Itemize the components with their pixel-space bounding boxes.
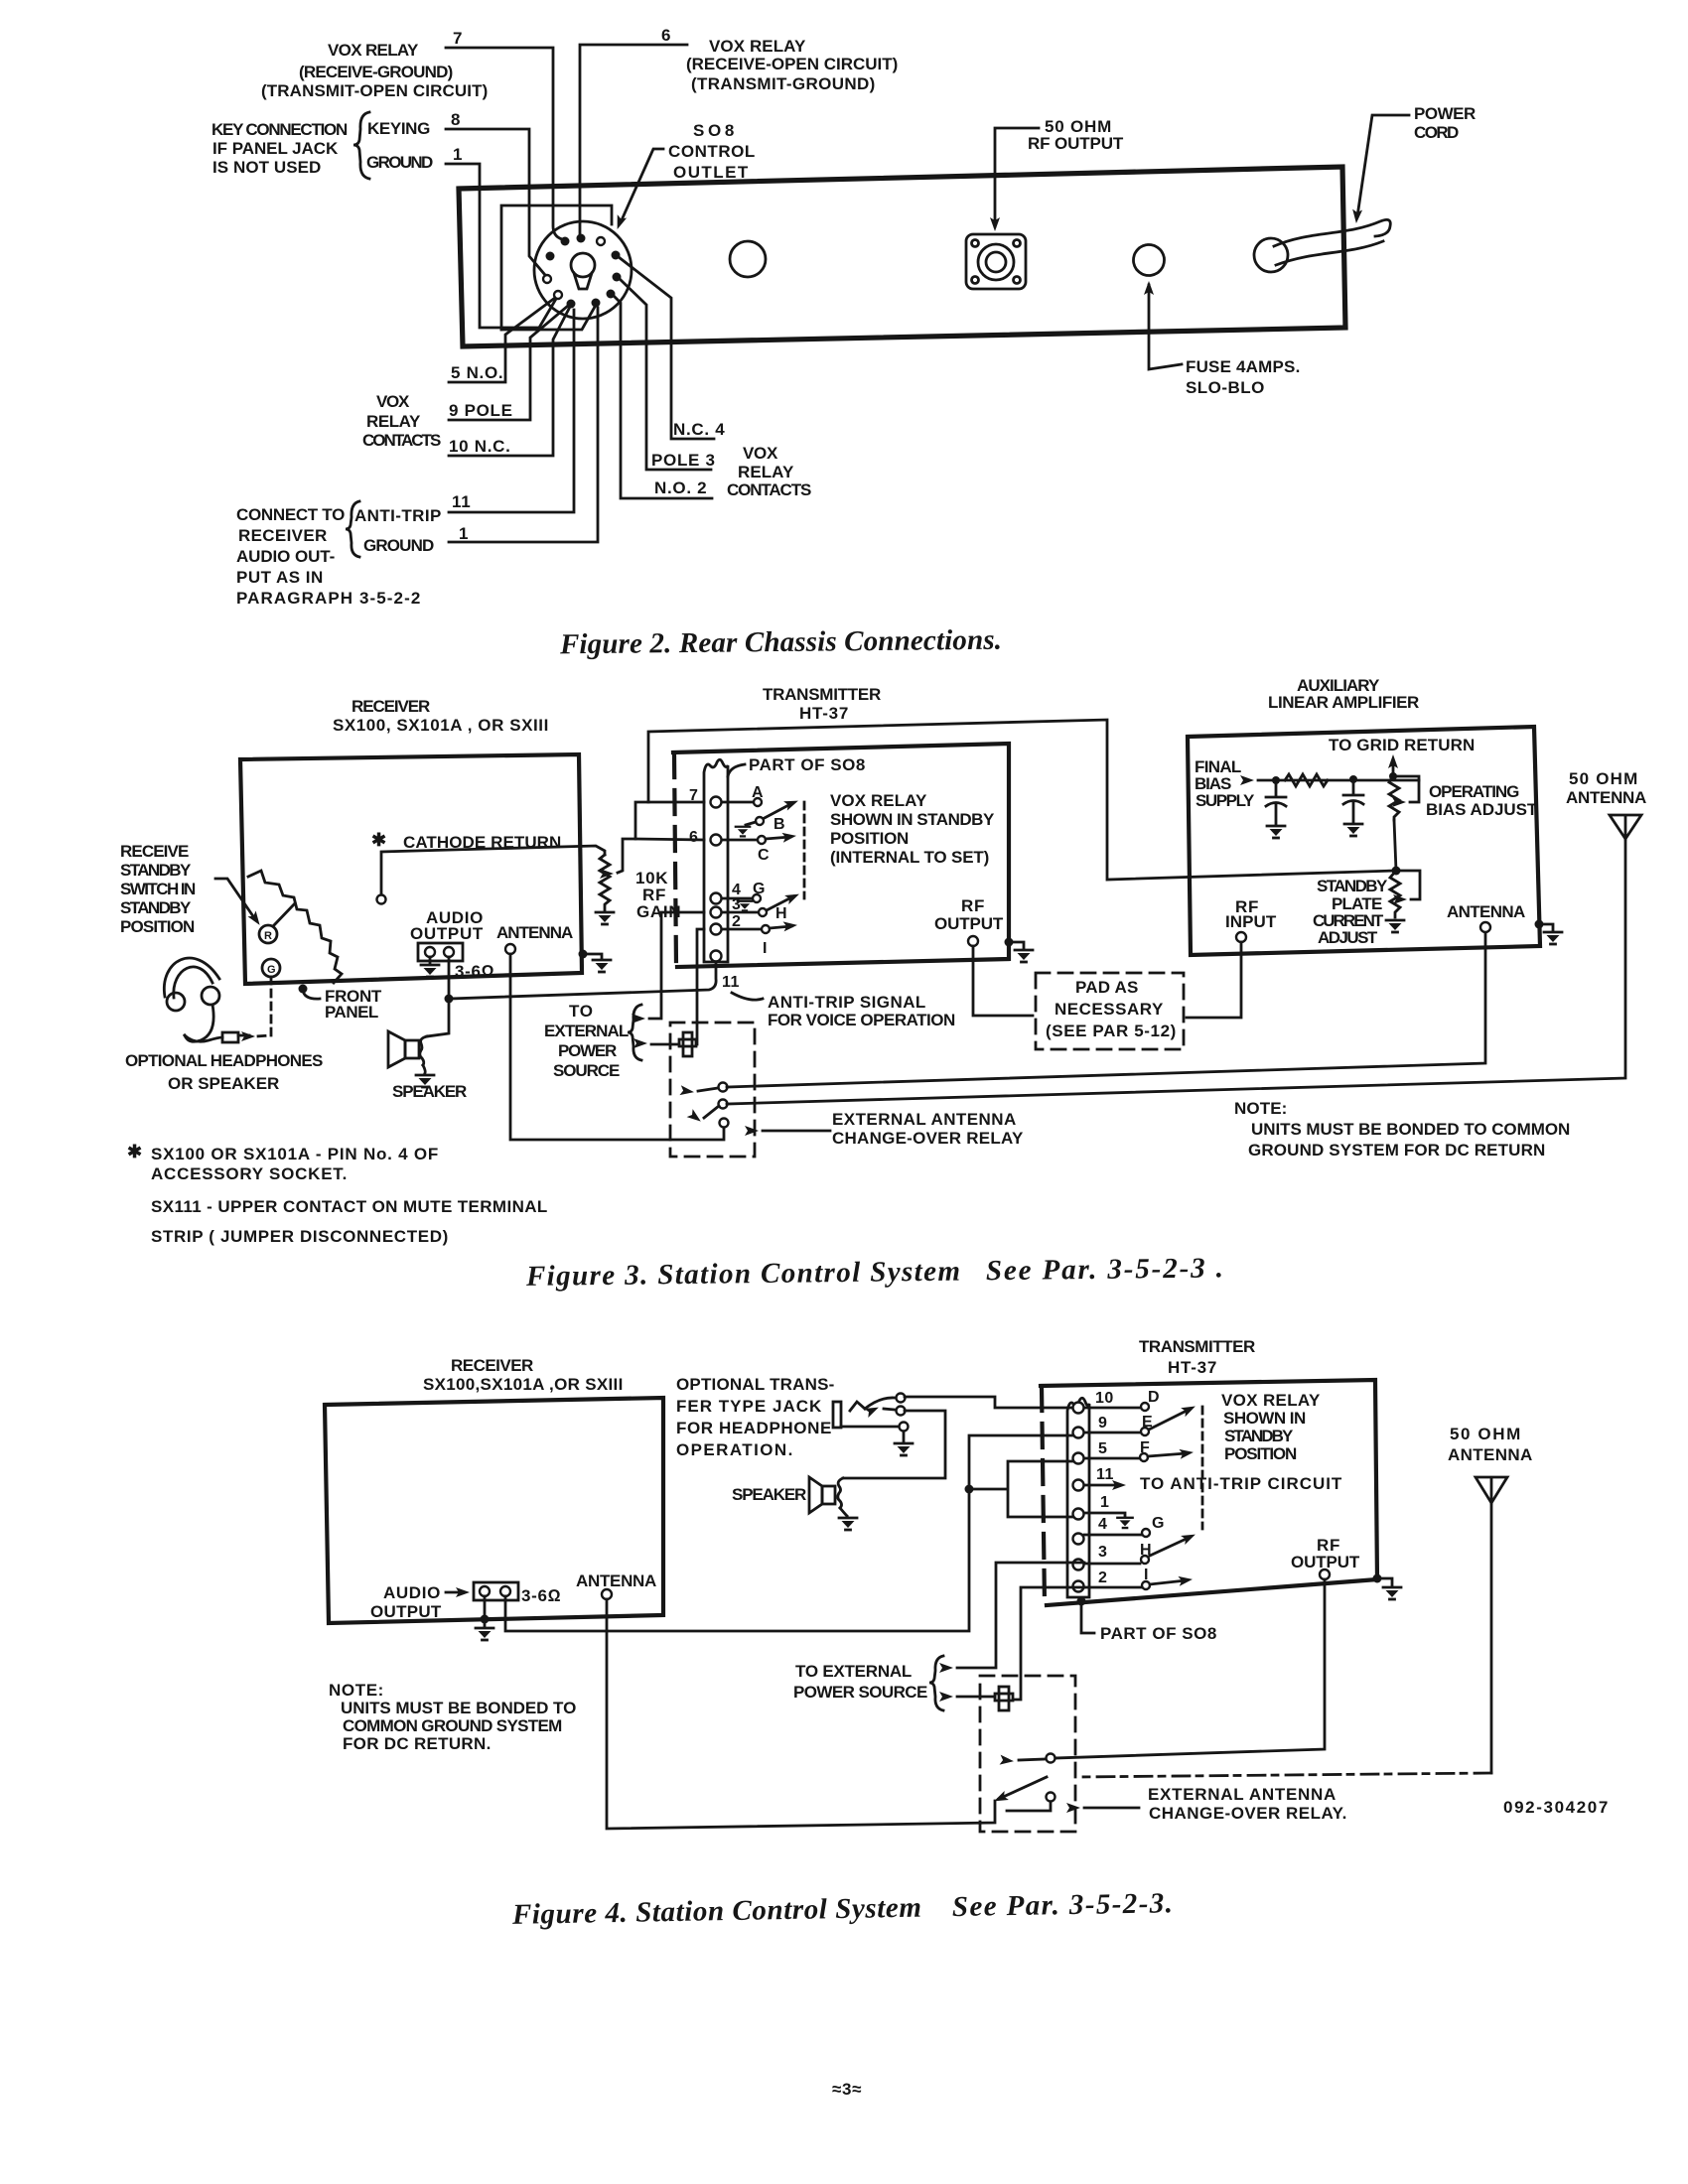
svg-text:Figure 2. Rear Chassis Connect: Figure 2. Rear Chassis Connections.: [559, 624, 1003, 661]
leader to RF connector: [995, 128, 1039, 226]
contact D: [1084, 1407, 1140, 1410]
svg-text:2: 2: [1098, 1570, 1107, 1586]
svg-text:COMMON GROUND SYSTEM: COMMON GROUND SYSTEM: [343, 1716, 563, 1735]
wire anti-trip pin 11: [449, 310, 574, 512]
svg-text:RECEIVE: RECEIVE: [120, 842, 190, 861]
svg-text:8: 8: [451, 110, 461, 129]
svg-text:EXTERNAL: EXTERNAL: [544, 1022, 630, 1040]
SO8 strip fig4: [1067, 1398, 1089, 1597]
pot operating bias adjust: [1389, 776, 1399, 820]
svg-text:CONNECT TO: CONNECT TO: [236, 505, 346, 524]
contact C: [722, 839, 757, 842]
antenna wire fig4: [607, 1599, 995, 1829]
label KEY CONNECTION block: [211, 120, 349, 177]
label AUXILIARY LINEAR AMPLIFIER: [1268, 676, 1420, 712]
wire POLE 3: [620, 279, 711, 470]
leader relay fig3: [763, 1130, 830, 1133]
RF output connector SO-239: [966, 234, 1026, 289]
pin 1 ground: [1084, 1513, 1125, 1516]
svg-text:GROUND: GROUND: [363, 536, 435, 555]
label VOX RELAY SHOWN fig4: [1221, 1391, 1321, 1463]
label VOX RELAY SHOWN IN STANDBY: [830, 791, 995, 867]
svg-text:AUDIO OUT-: AUDIO OUT-: [236, 547, 336, 566]
receiver box: [240, 754, 582, 984]
svg-text:SHOWN IN: SHOWN IN: [1223, 1409, 1307, 1428]
svg-text:Figure 3. Station Control Syst: Figure 3. Station Control System: [525, 1256, 961, 1293]
svg-text:ANTENNA: ANTENNA: [576, 1571, 657, 1590]
svg-text:9: 9: [1098, 1415, 1107, 1432]
bias bus wire: [1258, 779, 1419, 782]
transmitter box fig3: [673, 744, 1009, 967]
svg-text:I: I: [763, 940, 768, 957]
wire ground pin1 bottom: [449, 308, 598, 542]
relay arm top: [698, 1088, 718, 1091]
svg-text:1: 1: [459, 524, 469, 543]
svg-text:ANTI-TRIP: ANTI-TRIP: [354, 506, 442, 525]
label ANTI-TRIP SIGNAL: [768, 993, 956, 1029]
svg-text:F: F: [1140, 1439, 1150, 1456]
svg-text:EXTERNAL ANTENNA: EXTERNAL ANTENNA: [1148, 1785, 1336, 1804]
svg-text:ACCESSORY SOCKET.: ACCESSORY SOCKET.: [151, 1164, 348, 1183]
svg-text:G: G: [267, 964, 276, 976]
label VOX RELAY (receive-ground): [261, 41, 489, 100]
label NOTE fig4: [329, 1681, 577, 1753]
svg-text:(RECEIVE-GROUND): (RECEIVE-GROUND): [299, 63, 454, 81]
leader front panel: [299, 985, 308, 994]
label FRONT PANEL: [325, 987, 382, 1022]
antenna symbol fig4: [1476, 1477, 1507, 1503]
relay contact middle fig3: [719, 1100, 728, 1109]
wire pin6 to socket: [580, 45, 687, 234]
transmitter left edge dashed fig4: [1042, 1387, 1045, 1604]
svg-text:TO: TO: [569, 1002, 594, 1021]
svg-text:OUTPUT: OUTPUT: [410, 924, 484, 943]
svg-text:POSITION: POSITION: [830, 829, 910, 848]
label RECEIVER SX100: [333, 697, 549, 735]
coax plug fig4: [995, 1687, 1013, 1710]
svg-text:RECEIVER: RECEIVER: [238, 526, 328, 545]
leader to switch: [215, 879, 255, 919]
audio output terminal strip: [418, 943, 463, 961]
wire pin7 up and across top: [648, 720, 1396, 880]
svg-text:TRANSMITTER: TRANSMITTER: [763, 685, 882, 704]
contact G fig4: [1084, 1534, 1141, 1537]
standby switch terminal G: [262, 959, 280, 977]
fuse holder: [1134, 245, 1165, 276]
speaker ground fig4: [840, 1508, 847, 1516]
audio wire to pin9 and jumpers: [505, 1435, 1072, 1631]
strip pins fig4: [1073, 1403, 1084, 1592]
wire jack ring to speaker: [843, 1411, 945, 1478]
svg-text:50 OHM: 50 OHM: [1450, 1425, 1521, 1443]
pin number labels fig3: [689, 787, 741, 991]
label OPTIONAL TRANSFER JACK: [676, 1375, 835, 1459]
svg-text:OUTPUT: OUTPUT: [934, 914, 1004, 933]
grid return arrow: [1392, 760, 1395, 775]
svg-text:See Par. 3-5-2-3.: See Par. 3-5-2-3.: [952, 1887, 1175, 1923]
svg-text:SHOWN IN STANDBY: SHOWN IN STANDBY: [830, 810, 995, 829]
svg-text:LINEAR AMPLIFIER: LINEAR AMPLIFIER: [1268, 693, 1420, 712]
svg-text:9 POLE: 9 POLE: [449, 401, 513, 420]
label RF INPUT: [1225, 897, 1277, 931]
svg-text:B: B: [774, 816, 785, 833]
svg-text:SPEAKER: SPEAKER: [732, 1485, 807, 1504]
label EXTERNAL ANTENNA CHANGE-OVER RELAY fig4: [1148, 1785, 1347, 1823]
jack check contact: [850, 1402, 865, 1411]
svg-text:NOTE:: NOTE:: [329, 1681, 384, 1700]
svg-text:R: R: [264, 930, 272, 942]
svg-text:11: 11: [722, 974, 740, 991]
svg-text:SX100,SX101A ,OR SXIII: SX100,SX101A ,OR SXIII: [423, 1375, 624, 1394]
panel hole: [730, 241, 766, 277]
wire jack tip to pin 10: [905, 1397, 1072, 1408]
aux amplifier box: [1188, 727, 1540, 955]
svg-text:OUTLET: OUTLET: [673, 163, 749, 182]
svg-text:(TRANSMIT-OPEN CIRCUIT): (TRANSMIT-OPEN CIRCUIT): [261, 81, 489, 100]
arm H to G fig4: [1150, 1538, 1189, 1556]
svg-text:OUTPUT: OUTPUT: [370, 1602, 442, 1621]
svg-text:1: 1: [453, 145, 463, 164]
contact I fig4: [1084, 1586, 1141, 1589]
label FINAL BIAS SUPPLY: [1195, 757, 1255, 810]
svg-text:10 N.C.: 10 N.C.: [449, 437, 511, 456]
svg-text:UNITS MUST BE BONDED TO C: UNITS MUST BE BONDED TO COMMON: [1251, 1120, 1571, 1139]
label OPTIONAL HEADPHONES OR SPEAKER: [125, 1051, 324, 1093]
coax plug fig3: [679, 1032, 696, 1056]
wire pin7 to socket: [446, 48, 562, 239]
svg-text:RECEIVER: RECEIVER: [352, 697, 431, 716]
svg-text:G: G: [753, 881, 766, 897]
svg-text:POWER: POWER: [1414, 104, 1477, 123]
svg-text:RELAY: RELAY: [738, 463, 794, 481]
svg-text:OPTIONAL TRANS-: OPTIONAL TRANS-: [676, 1375, 835, 1394]
wire pin2 to plug fig4: [1014, 1587, 1084, 1700]
svg-text:11: 11: [1096, 1466, 1114, 1483]
svg-text:KEYING: KEYING: [367, 119, 431, 138]
power cord grommet: [1254, 238, 1288, 272]
svg-text:GROUND: GROUND: [366, 153, 434, 172]
svg-text:5: 5: [1098, 1440, 1107, 1457]
svg-text:FUSE 4AMPS.: FUSE 4AMPS.: [1186, 357, 1301, 376]
scratchy antenna feed line fig4: [1077, 1773, 1491, 1777]
wire pin2 to plug: [697, 929, 704, 1044]
brace ext power fig4: [929, 1656, 943, 1710]
svg-text:3-6Ω: 3-6Ω: [455, 962, 494, 981]
svg-text:ANTENNA: ANTENNA: [496, 923, 574, 942]
transmitter chassis ground fig4: [1373, 1574, 1382, 1583]
receiver chassis ground: [579, 950, 588, 959]
transfer jack plug bar: [833, 1402, 841, 1428]
transmitter left edge dashed: [674, 753, 676, 966]
svg-text:PART OF SO8: PART OF SO8: [1100, 1624, 1217, 1643]
chassis rear panel outline: [459, 167, 1345, 346]
label TRANSMITTER HT-37 fig4: [1139, 1337, 1256, 1377]
jack ground: [903, 1432, 906, 1441]
junction anti-trip tap: [445, 995, 454, 1004]
svg-text:VOX RELAY: VOX RELAY: [709, 37, 806, 56]
svg-text:FOR VOICE OPERATION: FOR VOICE OPERATION: [768, 1011, 956, 1029]
socket pins: [543, 234, 622, 309]
svg-text:OPERATION.: OPERATION.: [676, 1440, 793, 1459]
svg-text:POWER: POWER: [558, 1041, 618, 1060]
svg-text:CONTROL: CONTROL: [668, 142, 756, 161]
wiper standby: [1396, 871, 1420, 899]
svg-text:4: 4: [1098, 1516, 1107, 1533]
pin labels fig4: [1095, 1390, 1114, 1586]
svg-text:RECEIVER: RECEIVER: [451, 1356, 534, 1375]
wire to aux antenna: [727, 932, 1485, 1087]
wire N.C.4: [619, 257, 714, 439]
svg-text:11: 11: [452, 492, 471, 511]
svg-text:OPTIONAL HEADPHONES: OPTIONAL HEADPHONES: [125, 1051, 324, 1070]
junction dots bias: [1272, 776, 1280, 784]
svg-text:ANTENNA: ANTENNA: [1448, 1445, 1533, 1464]
svg-text:VOX RELAY: VOX RELAY: [1221, 1391, 1321, 1410]
wire keying pin8: [446, 129, 545, 275]
svg-text:SOURCE: SOURCE: [553, 1061, 621, 1080]
contact I: [722, 928, 761, 931]
label RF OUTPUT fig4: [1291, 1536, 1360, 1571]
torn edge wavy line: [248, 871, 342, 983]
svg-text:HT-37: HT-37: [1168, 1358, 1217, 1377]
aux chassis ground: [1535, 920, 1544, 929]
label VOX RELAY CONTACTS (right): [727, 444, 812, 499]
svg-text:EXTERNAL ANTENNA: EXTERNAL ANTENNA: [832, 1110, 1017, 1129]
wire pin3 to ext power: [649, 912, 704, 1019]
power cord: [1274, 219, 1390, 246]
headphone cord and plug: [185, 1035, 222, 1041]
svg-text:SO8: SO8: [693, 121, 735, 140]
label 50 OHM RF OUTPUT: [1028, 117, 1124, 153]
wire pin3 to ext power fig4: [957, 1563, 1084, 1668]
svg-text:10: 10: [1095, 1390, 1114, 1407]
svg-text:A: A: [752, 784, 764, 801]
fig3 transmitter RF OUTPUT: [934, 896, 1004, 933]
brace anti-trip/ground: [346, 501, 359, 557]
arm E to D: [1149, 1410, 1189, 1430]
svg-text:6: 6: [661, 26, 671, 45]
svg-text:BIAS ADJUST: BIAS ADJUST: [1426, 800, 1538, 819]
svg-text:VOX: VOX: [376, 392, 410, 411]
svg-text:POSITION: POSITION: [120, 917, 196, 936]
label 50 OHM ANTENNA fig3: [1566, 769, 1647, 807]
relay contact B fig4: [1047, 1793, 1055, 1802]
svg-text:ADJUST: ADJUST: [1318, 928, 1378, 947]
svg-text:HT-37: HT-37: [799, 704, 849, 723]
potentiometer 10K RF GAIN: [600, 855, 610, 910]
svg-text:PUT AS IN: PUT AS IN: [236, 568, 324, 587]
svg-text:3: 3: [1098, 1544, 1107, 1561]
svg-text:FOR DC RETURN.: FOR DC RETURN.: [343, 1734, 492, 1753]
label PAD AS NECESSARY: [1046, 978, 1177, 1040]
svg-text:OPERATING: OPERATING: [1429, 782, 1520, 801]
ground at audio strip: [429, 957, 432, 964]
label VOX RELAY (receive-open circuit): [686, 37, 899, 93]
svg-text:N.O. 2: N.O. 2: [654, 478, 707, 497]
svg-text:INPUT: INPUT: [1225, 912, 1277, 931]
contact H: [722, 911, 758, 914]
svg-text:UNITS MUST BE BONDED TO: UNITS MUST BE BONDED TO: [341, 1699, 577, 1717]
svg-text:H: H: [1140, 1542, 1152, 1559]
relay contact A fig4: [1047, 1754, 1055, 1763]
brace ext power fig3: [628, 1005, 641, 1060]
svg-text:2: 2: [732, 913, 741, 930]
label STANDBY PLATE CURRENT ADJUST: [1313, 877, 1388, 947]
label EXTERNAL ANTENNA CHANGE-OVER RELAY fig3: [832, 1110, 1024, 1148]
actuator dashed fig4: [1201, 1407, 1204, 1529]
svg-text:(INTERNAL TO SET): (INTERNAL TO SET): [830, 848, 990, 867]
svg-text:N.C. 4: N.C. 4: [673, 420, 725, 439]
svg-text:SX100 OR SX101A - PIN No.: SX100 OR SX101A - PIN No. 4 OF: [151, 1145, 439, 1163]
SO8 strip fig3: [704, 759, 728, 962]
svg-text:✱: ✱: [127, 1142, 143, 1161]
relay contact bottom fig3: [720, 1119, 729, 1128]
antenna terminal fig4: [602, 1589, 612, 1599]
speaker fig4: [809, 1477, 843, 1513]
relay contact top fig3: [719, 1083, 728, 1092]
arrow to plug line: [651, 1043, 679, 1046]
svg-text:(SEE PAR 5-12): (SEE PAR 5-12): [1046, 1022, 1177, 1040]
svg-text:AUDIO: AUDIO: [383, 1583, 441, 1602]
capacitor C2: [1343, 779, 1363, 836]
svg-text:STANDBY: STANDBY: [120, 898, 192, 917]
capacitor C1: [1266, 780, 1286, 838]
socket SO8 body circle: [534, 221, 632, 319]
cathode return wire: [381, 846, 605, 894]
label AUDIO OUTPUT fig4: [370, 1583, 442, 1621]
label TRANSMITTER HT-37: [763, 685, 882, 723]
svg-text:PARAGRAPH 3-5-2-2: PARAGRAPH 3-5-2-2: [236, 589, 421, 608]
svg-text:OR SPEAKER: OR SPEAKER: [168, 1074, 280, 1093]
label CONNECT TO receiver block: [236, 505, 421, 608]
contact F: [1084, 1457, 1139, 1460]
svg-text:SLO-BLO: SLO-BLO: [1186, 378, 1265, 397]
wire pin6 to pot wiper: [618, 839, 704, 873]
pot standby plate current: [1390, 871, 1400, 917]
wire to 50 ohm antenna: [727, 839, 1625, 1104]
asterisk footnote fig3: [127, 1142, 548, 1246]
relay arm middle: [704, 1106, 719, 1118]
svg-text:7: 7: [689, 787, 698, 804]
svg-text:RELAY: RELAY: [366, 412, 421, 431]
svg-text:≈3≈: ≈3≈: [832, 2080, 862, 2099]
label FUSE 4AMPS SLO-BLO: [1186, 357, 1301, 397]
svg-text:7: 7: [453, 29, 463, 48]
label TO EXTERNAL POWER SOURCE fig4: [793, 1662, 928, 1702]
cathode return terminal: [377, 895, 386, 904]
svg-text:TO GRID RETURN: TO GRID RETURN: [1329, 736, 1476, 754]
ext antenna relay dashed box fig3: [670, 1023, 755, 1157]
pin 11 anti-trip leader: [732, 993, 763, 1000]
relay actuator dashed (upper): [803, 802, 806, 898]
strip pins fig3: [711, 797, 722, 962]
inner mounting plate around socket: [501, 205, 612, 330]
svg-text:3-6Ω: 3-6Ω: [521, 1586, 561, 1605]
svg-text:STANDBY: STANDBY: [120, 861, 192, 880]
wire rf output to pad: [973, 946, 1033, 1016]
svg-text:FER TYPE JACK: FER TYPE JACK: [676, 1397, 822, 1416]
svg-text:VOX RELAY: VOX RELAY: [830, 791, 927, 810]
aux antenna terminal: [1480, 922, 1490, 932]
svg-text:POWER SOURCE: POWER SOURCE: [793, 1683, 928, 1702]
junction transmitter ground: [1005, 938, 1014, 947]
svg-text:I: I: [1144, 1567, 1149, 1583]
contact G with ground: [722, 897, 752, 900]
anti-trip wire: [449, 959, 716, 999]
svg-text:(RECEIVE-OPEN CIRCUIT): (RECEIVE-OPEN CIRCUIT): [686, 55, 899, 73]
pot ground: [596, 912, 614, 924]
dashed jack line from G: [256, 977, 271, 1036]
svg-text:5 N.O.: 5 N.O.: [451, 363, 503, 382]
wire N.O.2: [614, 296, 712, 498]
antenna symbol fig3: [1610, 815, 1641, 839]
audio strip fig4: [474, 1582, 518, 1600]
wire pin7 junction: [635, 802, 704, 839]
label TO EXTERNAL POWER SOURCE (fig3): [544, 1002, 630, 1080]
jack sleeve wire to lower contact: [841, 1426, 899, 1429]
svg-text:IS NOT USED: IS NOT USED: [212, 158, 322, 177]
svg-text:D: D: [1148, 1389, 1160, 1406]
svg-text:PAD AS: PAD AS: [1075, 978, 1139, 997]
svg-text:SX111 - UPPER CONTACT ON MU: SX111 - UPPER CONTACT ON MUTE TERMINAL: [151, 1197, 548, 1216]
ext antenna relay dashed box fig4: [980, 1676, 1075, 1832]
relay arm fig4: [999, 1777, 1047, 1799]
contact H fig4: [1084, 1563, 1140, 1566]
headphones: [164, 958, 219, 1041]
svg-text:RF: RF: [961, 896, 985, 915]
svg-text:STANDBY: STANDBY: [1224, 1427, 1294, 1445]
svg-text:SUPPLY: SUPPLY: [1196, 791, 1255, 810]
label RECEIVE STANDBY SWITCH: [120, 842, 197, 936]
speaker: [388, 1031, 427, 1067]
jack arm arrow: [884, 1409, 895, 1410]
svg-text:ANTENNA: ANTENNA: [1447, 902, 1526, 921]
svg-text:CORD: CORD: [1414, 123, 1460, 142]
resistor bias: [1285, 774, 1328, 786]
svg-text:KEY CONNECTION: KEY CONNECTION: [211, 120, 349, 139]
svg-text:VOX: VOX: [743, 444, 778, 463]
svg-text:CHANGE-OVER RELAY.: CHANGE-OVER RELAY.: [1149, 1804, 1347, 1823]
standby switch terminal R: [259, 925, 277, 943]
svg-text:SPEAKER: SPEAKER: [392, 1082, 468, 1101]
leader relay fig4: [1084, 1807, 1139, 1810]
pad as necessary dashed box: [1036, 973, 1184, 1049]
label 50 OHM ANTENNA fig4: [1448, 1425, 1533, 1464]
wire rf input to pad: [1187, 942, 1241, 1018]
rf input terminal: [1236, 932, 1246, 942]
contact A: [722, 801, 753, 804]
leader SO8 to socket: [621, 149, 663, 222]
svg-text:(TRANSMIT-GROUND): (TRANSMIT-GROUND): [691, 74, 876, 93]
contact B with ground: [756, 817, 764, 825]
svg-text:H: H: [775, 905, 787, 922]
svg-text:✱: ✱: [371, 830, 387, 850]
svg-text:6: 6: [689, 829, 698, 846]
plug to arrow fig4: [957, 1696, 995, 1699]
arm B to A row: [763, 803, 792, 819]
svg-text:VOX RELAY: VOX RELAY: [328, 41, 419, 60]
socket keyhole center: [571, 253, 595, 289]
svg-text:PANEL: PANEL: [325, 1003, 379, 1022]
label RECEIVER fig4: [423, 1356, 624, 1394]
svg-text:SWITCH IN: SWITCH IN: [120, 880, 197, 898]
svg-text:RF OUTPUT: RF OUTPUT: [1028, 134, 1124, 153]
svg-text:POSITION: POSITION: [1224, 1444, 1298, 1463]
audio wire to speaker: [427, 957, 449, 1036]
label NOTE fig3: [1234, 1099, 1571, 1160]
PART OF SO8 fig4: [1077, 1597, 1086, 1606]
svg-text:092-304207: 092-304207: [1503, 1798, 1609, 1817]
